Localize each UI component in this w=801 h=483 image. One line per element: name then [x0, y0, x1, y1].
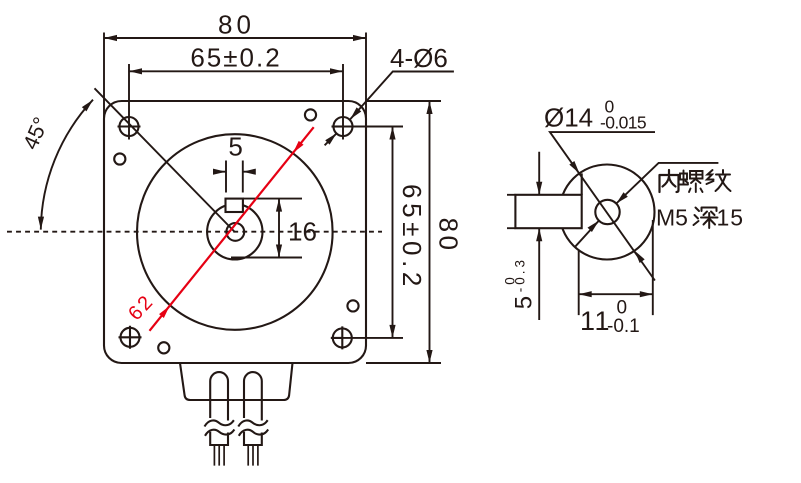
cable1 jacket — [210, 432, 228, 445]
bolt hole bottom-right — [331, 326, 352, 349]
svg-text:16: 16 — [288, 217, 317, 247]
svg-text:80: 80 — [434, 218, 464, 254]
cjk LUO glyph — [679, 171, 703, 193]
dim11 extension lines — [579, 220, 653, 315]
svg-text:M5: M5 — [656, 205, 688, 231]
dimD14 leader — [550, 132, 655, 280]
cable1 loop — [210, 372, 228, 420]
dim11 line — [579, 293, 653, 295]
small hole top-left — [114, 153, 125, 164]
cable1 break wave lower — [205, 430, 234, 436]
arrows right view — [536, 182, 542, 195]
svg-text:15: 15 — [717, 205, 745, 231]
connector housing — [180, 363, 293, 400]
dim65 top extension lines — [129, 64, 343, 140]
shaft side rectangle (flat) — [515, 195, 581, 228]
dim65 right line — [392, 127, 394, 338]
svg-text:4-Ø6: 4-Ø6 — [390, 43, 448, 73]
RIGHT-VIEW — [515, 165, 654, 260]
dim5 right text rotated — [503, 257, 538, 309]
arrows dims black — [104, 35, 117, 41]
shaft circle — [226, 223, 244, 241]
svg-text:Ø14: Ø14 — [544, 103, 593, 133]
svg-text:-0.3: -0.3 — [513, 257, 528, 292]
boss circle — [207, 204, 262, 259]
dim62 red diagonal — [150, 127, 314, 331]
dim16 extension lines — [231, 199, 302, 258]
cable2 break wave lower — [239, 430, 268, 436]
dim80 right line — [429, 101, 431, 363]
bolt hole top-left — [118, 117, 141, 136]
bolt hole bottom-left — [119, 326, 142, 349]
svg-text:-0.015: -0.015 — [600, 113, 646, 133]
M5 leader — [616, 163, 718, 204]
cable2 break wave upper — [238, 420, 267, 426]
keyway square — [226, 199, 243, 212]
dim5 extension lines — [226, 161, 243, 193]
small hole bottom-left — [158, 342, 169, 353]
cable2 jacket — [244, 432, 262, 445]
small hole top-right — [305, 109, 316, 120]
dim16 line — [278, 199, 280, 258]
M5 second arrow tail — [576, 221, 599, 247]
dim65 right extension lines — [342, 127, 403, 338]
flat chord upper segment — [581, 173, 583, 194]
centerline dashed — [7, 231, 382, 233]
small hole bottom-right — [347, 300, 358, 311]
flange outline — [104, 101, 366, 363]
M5 thread circle — [595, 200, 619, 224]
label 4-D6 second arrow tail — [325, 133, 337, 145]
cable1 wires — [214, 445, 224, 466]
label 4-D6 leader — [350, 72, 454, 120]
svg-text:65±0.2: 65±0.2 — [397, 184, 427, 291]
dim5 right extension lines — [507, 195, 515, 228]
svg-text:5: 5 — [228, 132, 242, 162]
angle arc 45deg — [41, 100, 93, 230]
svg-text:62: 62 — [124, 290, 159, 325]
svg-text:-0.1: -0.1 — [607, 316, 640, 337]
dim5 arrow tails — [214, 171, 256, 173]
shaft end circle D14 — [560, 165, 655, 260]
cable2 wires — [248, 445, 258, 466]
svg-text:65±0.2: 65±0.2 — [190, 42, 281, 72]
diagonal 45deg line — [95, 88, 235, 232]
svg-text:5: 5 — [511, 296, 538, 309]
dim80 top extension lines — [104, 33, 366, 119]
bolt hole top-right — [332, 117, 353, 136]
dim5 right arrow tails — [538, 152, 540, 320]
pilot circle D62 — [137, 134, 333, 330]
dim80 top line — [104, 37, 366, 39]
cable2 loop — [244, 372, 262, 420]
cjk WEN glyph — [707, 170, 731, 191]
dim65 top line — [129, 70, 343, 72]
svg-text:80: 80 — [218, 10, 255, 40]
dim80 right extension lines — [366, 101, 441, 363]
cable1 break wave upper — [205, 420, 234, 426]
cjk SHEN glyph — [694, 208, 718, 229]
cjk NEI glyph — [660, 170, 679, 192]
svg-text:45°: 45° — [18, 114, 53, 153]
